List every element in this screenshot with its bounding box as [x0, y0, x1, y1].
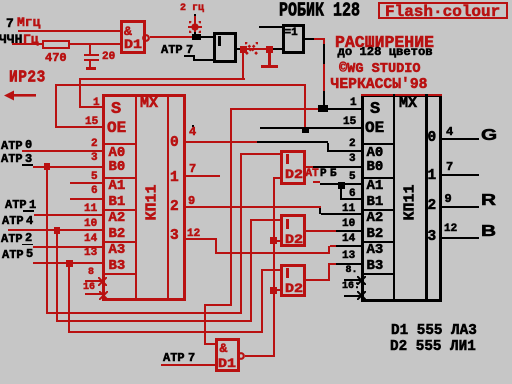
U4 pin 2 label — [91, 138, 98, 150]
U5 label B2 — [367, 226, 384, 242]
break marker on 2Hz wire — [188, 26, 202, 28]
wire line B OE net horizontal — [55, 84, 306, 86]
wire line A pin1 net horizontal — [79, 78, 245, 81]
label I of D2b — [286, 219, 289, 229]
U5 label A3 — [367, 242, 384, 258]
wire ATR3 vertical x46 — [46, 169, 48, 313]
wire ATR5 riser x259 to gate D2c input 1 — [261, 270, 263, 333]
or gate U2 — [213, 32, 237, 63]
wire ATR4 bus horizontal y319 — [56, 320, 252, 322]
U4 label MX — [140, 95, 158, 112]
wire ATR1 to left IC pin 11 — [34, 214, 102, 216]
label ATR7 top — [161, 43, 183, 57]
text do 128 tsvetov — [338, 45, 433, 59]
label D2 of D2c — [285, 282, 303, 296]
wire line A left leg to left IC S — [79, 80, 81, 106]
U5 label B1 — [367, 194, 384, 210]
U5 output pin 12 label — [444, 223, 457, 235]
U5 label A1 — [367, 178, 384, 194]
label 20 — [102, 51, 115, 63]
and gate D2c — [280, 264, 306, 297]
wire ATR4 riser x250 to gate D2b input 1 — [250, 220, 252, 322]
U4 label B2 — [109, 226, 126, 242]
wire flash net vertical x273 — [273, 177, 275, 357]
wire D2a input 2 corner — [273, 177, 283, 179]
U5 label B0 — [367, 159, 384, 175]
wire U4 out3 to right IC pin 14 — [186, 238, 218, 240]
wire D2c output to right IC pin 13 — [306, 279, 330, 281]
label ATR0 — [1, 139, 23, 153]
wire U5 out1 — [442, 174, 479, 176]
U4 pin 6 stub — [70, 198, 102, 200]
U4 output pin 9 label — [188, 194, 195, 208]
wire U4 out2 to right IC pin 11 — [186, 206, 321, 208]
artifact pixel at label 4 — [192, 125, 195, 128]
U5 label B3 — [367, 258, 384, 274]
U5 label KP11 rotated — [402, 180, 419, 226]
U4 pin 11 label — [84, 203, 97, 215]
wire D1b output to flash net — [245, 355, 275, 357]
U5 output pin 9 label — [445, 192, 452, 206]
arrow left — [4, 90, 36, 101]
label D1 of D1a — [124, 38, 142, 52]
U5 label A2 — [367, 210, 384, 226]
text CHERKASSY 98 — [331, 77, 428, 93]
junction dot at right IC pin 15 — [302, 128, 309, 134]
junction dot D2b input 2 — [270, 237, 277, 244]
U5 output pin 7 label — [446, 160, 453, 174]
wire ATR3 bus horizontal y311 — [46, 312, 243, 314]
U5 top edge red attribute — [361, 94, 442, 97]
U4 label A1 — [109, 178, 126, 194]
wire ATR6 bracket to right IC pin 6 — [340, 188, 342, 199]
label 1 of U2 — [218, 36, 221, 46]
junction dot at OR gate input — [192, 34, 201, 40]
U4 label KP11 rotated — [144, 180, 161, 226]
label B — [481, 223, 496, 241]
label ATR2 — [1, 232, 23, 246]
U4 output pin 4 label — [189, 125, 196, 139]
U5 pin 15 label — [343, 116, 356, 128]
wire S-net vertical x231 — [230, 108, 232, 306]
resistor R1 — [42, 40, 70, 49]
wire U5 out0 to G — [442, 138, 479, 140]
wire freq label to resistor R1 — [12, 43, 42, 45]
xor gate U3 — [282, 24, 306, 55]
label =1 of U3 — [285, 27, 298, 39]
label ATR5 — [2, 248, 24, 262]
U4 pin 16 stub and cross — [85, 293, 102, 295]
label & of D1a — [124, 24, 132, 39]
label 2 Hz — [180, 3, 204, 14]
mux IC U5 KP11 right body — [361, 94, 442, 302]
wire line A right leg to dot A — [242, 52, 244, 78]
label & of D1b — [220, 341, 228, 356]
U5 label S — [370, 100, 380, 119]
label ATR3 — [1, 152, 23, 166]
U5 pin 3 label — [349, 153, 356, 165]
label 44N Hz — [0, 32, 22, 47]
wire junction to OR gate U2 — [201, 36, 214, 38]
U5 output pin 4 label — [446, 125, 453, 139]
U5 pin 8 label — [346, 265, 358, 276]
wire ATR5 bus horizontal y330 — [68, 331, 263, 333]
junction dot ATR3 — [44, 163, 51, 170]
U5 pin 10 label — [342, 218, 355, 230]
junction dot A after U2 — [240, 46, 247, 53]
text D1 555 LA3 — [391, 323, 477, 339]
wire U3 output — [305, 38, 314, 40]
wire U2 output stub — [237, 48, 241, 50]
U5 pin 14 label — [342, 233, 355, 245]
inverter circle of D1a output — [142, 34, 150, 42]
label 470 — [45, 51, 67, 65]
wire ATR7 to D1b input 2 — [161, 364, 215, 366]
U5 output labels 0-3 — [428, 130, 437, 146]
wire ATR0 to left IC pin 2 — [22, 150, 102, 152]
U4 label A3 — [109, 242, 126, 258]
wire U3 input 1 stub — [259, 26, 282, 28]
break marker after U2 — [245, 42, 258, 55]
wire ATR7 to OR gate U2 input 2 — [184, 55, 193, 57]
U5 label MX — [399, 95, 417, 112]
U4 pin 14 label — [84, 233, 97, 245]
U4 output labels 0-3 — [170, 135, 179, 151]
wire U4 out1 stub — [186, 175, 221, 177]
junction dot D2c input 2 — [270, 287, 277, 294]
wire ATR5 to left IC pin 13 — [33, 262, 102, 264]
U5 pin 2 label — [349, 138, 356, 150]
wire ATR5 vertical x69 — [68, 266, 70, 333]
label D2 of D2a — [285, 168, 303, 182]
junction dot at right IC pin 1 — [318, 105, 328, 112]
wire ATR4 vertical x56 — [56, 233, 58, 321]
label I of D2a — [286, 154, 289, 164]
junction dot ATR5 — [66, 260, 73, 267]
capacitor C1 — [89, 45, 91, 54]
wire S-net to right IC pin 1 — [231, 108, 318, 110]
label ATR6 — [306, 168, 319, 180]
U4 section separators — [104, 143, 135, 145]
U5 pin 5 label — [349, 171, 356, 183]
label G — [481, 127, 497, 145]
wire D2a output to right IC pin 3 — [306, 166, 313, 168]
U5 section separators — [362, 143, 393, 145]
U4 output pin 7 label — [189, 162, 196, 176]
U4 pin 6 label — [91, 185, 98, 197]
U4 divider 1 — [135, 94, 138, 301]
text RASSHIRENIE — [335, 33, 434, 52]
wire D2c input 2 — [275, 289, 280, 291]
U4 pin 3 label — [91, 152, 98, 164]
U4 pin 10 label — [84, 218, 97, 230]
U4 label B1 — [109, 194, 126, 210]
label IR23 — [9, 69, 46, 87]
U4 label S — [111, 100, 121, 119]
U4 label A2 — [109, 210, 126, 226]
label ATR7 bottom — [163, 351, 185, 365]
wire ATR3 to left IC pin 3 — [33, 166, 102, 168]
U5 pin 16 label — [342, 281, 360, 292]
text D2 555 LI1 — [390, 339, 476, 355]
artifact pixel above 2Hz wire — [194, 14, 197, 16]
label D2 of D2b — [285, 233, 303, 247]
U5 pin 1 label — [350, 97, 357, 109]
U4 divider 2 — [167, 94, 170, 301]
U4 label A0 — [109, 145, 126, 161]
U4 label B0 — [109, 159, 126, 175]
U5 pin 6 label — [349, 188, 356, 200]
U5 divider 2 — [425, 94, 428, 301]
label ATR1 — [5, 198, 27, 212]
U5 divider 1 — [393, 94, 396, 301]
U4 pin 5 label — [91, 171, 98, 183]
wire ATR4 to left IC pin 10 — [8, 229, 102, 231]
label I of D2c — [286, 268, 289, 278]
wire between break dots — [247, 48, 267, 50]
wire line B left leg to left IC OE — [55, 86, 57, 126]
wire dot B to XOR gate U3 — [273, 48, 282, 50]
U4 pin 8 label — [88, 267, 94, 278]
wire 7MHz to D1a input 1 — [18, 30, 120, 32]
inverter circle of D1b output — [237, 352, 245, 360]
wire D2b output to right IC pin 10 — [306, 230, 336, 232]
label D1 of D1b — [218, 357, 236, 371]
and gate D2b — [280, 214, 306, 247]
wire U5 out2 to R — [442, 206, 479, 208]
label 7 MHz — [6, 16, 14, 31]
wire S-net into D1b input 1 — [204, 343, 215, 345]
wire D1a output to junction — [150, 36, 192, 38]
wire 2Hz test point vertical — [194, 16, 196, 32]
wire ATR6 to right IC pin 5 — [320, 183, 361, 185]
wire OE to right IC pin 15 — [260, 127, 361, 129]
flash-colour badge — [378, 2, 508, 19]
U5 pin 13 label — [342, 250, 355, 262]
U4 pin 13 label — [84, 247, 97, 259]
U5 pin 8 stub and cross — [344, 279, 361, 281]
U5 pin 11 label — [342, 203, 355, 215]
U5 label OE — [365, 119, 384, 137]
U5 label A0 — [367, 145, 384, 161]
U4 label OE — [107, 119, 126, 137]
junction dot ATR6 — [338, 182, 345, 189]
wire U5 out3 to B — [442, 237, 479, 239]
U4 label B3 — [109, 258, 126, 274]
and gate D2a — [280, 150, 306, 185]
label R — [481, 192, 496, 210]
wire D2b input 2 — [275, 240, 280, 242]
nand gate D1a — [120, 20, 146, 55]
U4 pin 8 stub and cross — [85, 280, 102, 282]
U4 pin 5 stub — [70, 182, 102, 184]
junction dot ATR4 — [54, 227, 61, 234]
junction dot B before XOR — [266, 46, 273, 53]
U4 pin 16 label — [83, 282, 95, 293]
wire line B right leg to right IC OE — [304, 86, 307, 127]
mux IC U4 KP11 left body — [102, 94, 186, 301]
wire ATR2 to left IC pin 14 — [33, 246, 102, 248]
title ROBIK 128 — [279, 0, 360, 22]
terminal stub below dot B — [268, 53, 271, 65]
wire U4 out0 to right IC pin 2 — [186, 141, 258, 143]
text WG STUDIO — [339, 62, 421, 77]
U4 pin 15 label — [85, 116, 98, 128]
label ATR4 — [2, 214, 24, 228]
nand gate D1b — [215, 338, 241, 372]
wire S-net jog to x205 — [204, 304, 231, 306]
wire ATR3 riser x241 to gate D2a input 1 — [240, 155, 242, 314]
U4 output pin 12 label — [187, 228, 200, 240]
wire resistor R1 to D1a input 2 — [70, 43, 120, 45]
U4 pin 1 label — [93, 97, 100, 109]
U5 pin 16 stub and cross — [344, 295, 361, 297]
